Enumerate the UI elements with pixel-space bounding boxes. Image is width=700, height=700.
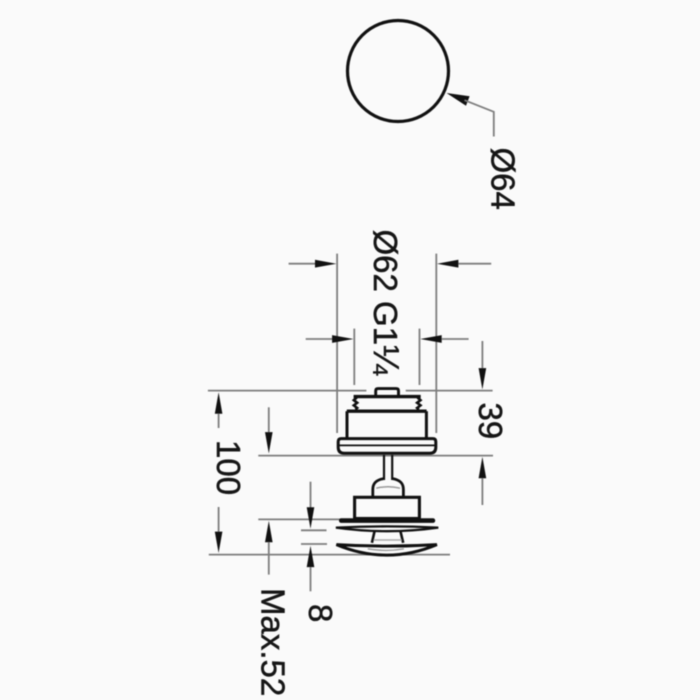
stem right edge (391, 455, 393, 480)
svg-text:Ø62 G1¼: Ø62 G1¼ (366, 230, 407, 377)
cone connector right (401, 532, 404, 543)
upper body left side (346, 411, 349, 437)
dimension Max.52: upper arrowhead (down) (265, 432, 273, 453)
dimension Ø62: right arrowhead (437, 260, 458, 268)
thread zigzag right (417, 398, 420, 410)
nut body (355, 497, 420, 518)
extension line: bottom of flange (y=455.6) (258, 455, 493, 457)
dimension 8: lower line (310, 567, 312, 591)
bell joint (373, 479, 404, 498)
dimension 100: upper line (218, 414, 220, 428)
svg-text:Max.52: Max.52 (255, 588, 292, 696)
dimension 100: upper arrowhead (up) (215, 392, 223, 413)
knob on top of valve body (376, 389, 399, 396)
cone inner line (374, 539, 402, 541)
upper body right side (425, 411, 428, 437)
svg-text:8: 8 (302, 604, 339, 622)
dimension G1 1/4: left extension line (353, 329, 355, 385)
dimension G1 1/4: left arrowhead (332, 335, 353, 343)
dimension Ø62: left line (289, 263, 316, 265)
svg-text:Ø64: Ø64 (485, 148, 522, 210)
dimension 8: lower arrowhead (up) (307, 546, 315, 567)
extension line: gasket tip (y=530.3) short (301, 529, 327, 531)
dimension 100: lower line (218, 507, 220, 532)
dimension Ø62: left arrowhead (315, 260, 336, 268)
extension line: top of body (y=390.6) left segment (208, 390, 367, 392)
dimension G1 1/4: right line (442, 338, 469, 340)
leader line for Ø64 (465, 100, 494, 136)
saucer inner arc (368, 549, 404, 551)
threaded section top edge (354, 395, 421, 398)
leader arrowhead on circle (447, 93, 470, 106)
dimension G1 1/4: left line (306, 338, 333, 340)
flange inner line (339, 444, 436, 446)
dimension 39: lower arrowhead (up) (479, 457, 487, 478)
svg-text:100: 100 (210, 440, 247, 495)
dimension 100: lower arrowhead (down) (215, 532, 223, 553)
dimension Ø62: right extension line (435, 254, 437, 433)
dimension 39: upper arrowhead (down) (479, 368, 487, 389)
dimension G1 1/4: right extension line (419, 329, 421, 385)
bell inner arc (376, 487, 400, 489)
extension line: top of washer (y=519.4) (258, 518, 340, 520)
dimension Max.52: lower arrowhead (up) (265, 521, 273, 542)
stem left edge (383, 455, 385, 480)
flange (dia 62) (338, 439, 436, 454)
extension line: bottom of saucer (y=554.6) (209, 554, 450, 556)
cone connector left (372, 532, 375, 543)
upper body top edge (347, 410, 427, 413)
washer bar (339, 518, 435, 523)
extension line: top of body right segment (406, 390, 493, 392)
extension line: saucer top (y=544) short (301, 543, 327, 545)
dimension Ø62: left extension line (336, 254, 338, 433)
gasket lens (336, 526, 438, 531)
svg-text:39: 39 (472, 403, 509, 440)
dimension G1 1/4: right arrowhead (420, 335, 441, 343)
dimension Ø62: right line (458, 263, 491, 265)
dimension 8: upper line (310, 482, 312, 508)
bottom saucer (336, 545, 437, 556)
circle: top view of cap, dia 64 (348, 21, 449, 122)
dimension Max.52: upper line (268, 407, 270, 432)
dimension Max.52: lower line (268, 542, 270, 574)
dimension 8: upper arrowhead (down) (307, 507, 315, 528)
thread zigzag left (354, 398, 357, 410)
dimension 39: upper line (481, 341, 483, 368)
dimension 39: lower line (481, 478, 483, 505)
